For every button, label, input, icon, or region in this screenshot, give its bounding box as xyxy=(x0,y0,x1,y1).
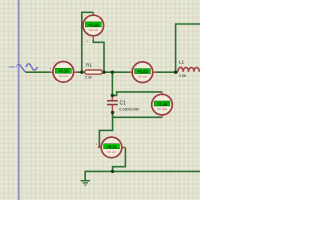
svg-text:+0.18: +0.18 xyxy=(58,69,69,74)
svg-text:INPUT: INPUT xyxy=(9,65,18,69)
svg-text:+: + xyxy=(131,67,133,71)
svg-text:0.0000145F: 0.0000145F xyxy=(119,107,140,111)
svg-text:+0.11: +0.11 xyxy=(106,144,117,149)
svg-text:+: + xyxy=(86,40,88,44)
svg-text:AC mA: AC mA xyxy=(59,74,68,78)
svg-text:+: + xyxy=(49,67,51,71)
svg-text:+: + xyxy=(96,142,98,146)
svg-text:2.2k: 2.2k xyxy=(85,76,92,80)
svg-text:AC Volts: AC Volts xyxy=(157,107,168,111)
svg-text:R1: R1 xyxy=(86,63,92,68)
svg-text:C1: C1 xyxy=(120,101,127,107)
svg-text:+2.39: +2.39 xyxy=(157,101,168,106)
svg-text:+0.03: +0.03 xyxy=(137,69,148,74)
svg-text:AC mA: AC mA xyxy=(107,150,116,154)
svg-text:+0.18: +0.18 xyxy=(88,22,99,27)
svg-text:3.5H: 3.5H xyxy=(179,74,187,78)
svg-text:AC mA: AC mA xyxy=(89,28,98,32)
svg-text:+: + xyxy=(180,64,182,68)
svg-text:AC mA: AC mA xyxy=(138,75,147,79)
svg-text:+: + xyxy=(157,90,159,94)
